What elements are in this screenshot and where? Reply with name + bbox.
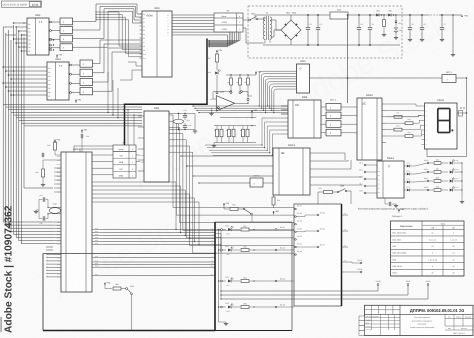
svg-text:Adobe Stock | #109074362: Adobe Stock | #109074362 xyxy=(4,205,15,333)
